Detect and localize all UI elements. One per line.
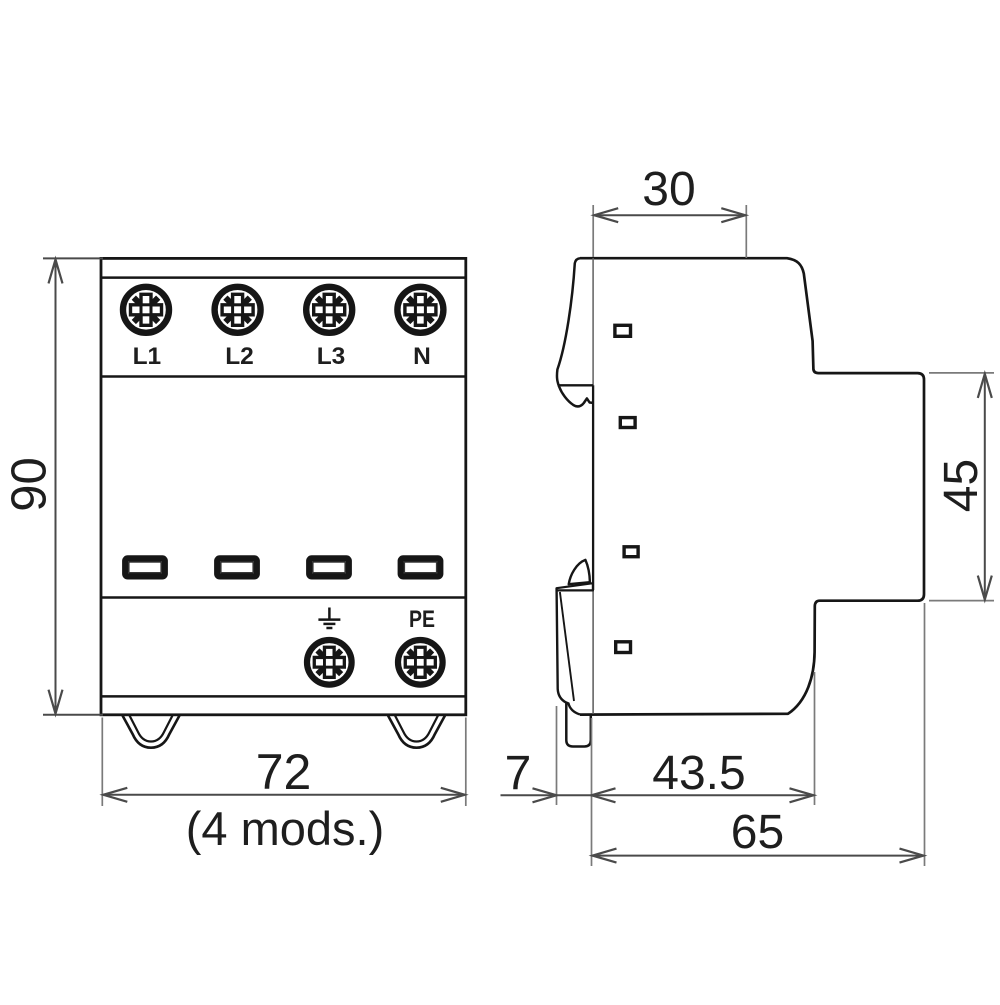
- dim 72 right extension: [465, 718, 467, 807]
- dim 72 left extension: [101, 718, 103, 807]
- module window 4: [616, 642, 631, 653]
- dim 30 arrow left: [594, 208, 618, 222]
- upper DIN claw: [557, 258, 593, 406]
- bottom foot: [566, 703, 591, 747]
- lower clip outer edge: [557, 590, 570, 703]
- svg-text:43.5: 43.5: [652, 747, 745, 800]
- dim 43.5 arrow left: [592, 788, 616, 802]
- lower clip release tab: [569, 560, 590, 584]
- dim 90 arrow up: [49, 259, 63, 283]
- dim 65 arrow left: [593, 849, 617, 863]
- module window 1: [615, 325, 631, 336]
- left mounting clip: [123, 716, 180, 748]
- divider line under slots: [101, 596, 466, 599]
- upper claw interior line: [558, 384, 594, 386]
- earth ground symbol: [318, 608, 340, 629]
- screw terminal L1: [123, 287, 169, 333]
- svg-text:72: 72: [256, 744, 312, 800]
- vent slot 2: [217, 558, 257, 576]
- dim 90 arrow down: [49, 690, 63, 714]
- svg-text:L2: L2: [225, 343, 254, 370]
- bottom edge left curve: [568, 703, 580, 715]
- svg-text:L3: L3: [317, 343, 346, 370]
- svg-text:7: 7: [505, 747, 532, 800]
- dim 90 bottom tick: [43, 714, 103, 716]
- side view left body edge upper thin part: [592, 258, 594, 385]
- side view left body edge: [592, 385, 594, 590]
- bottom band line: [101, 695, 466, 698]
- dim 7 line with outside arrow: [501, 794, 592, 796]
- dim 7-43.5 shared extension: [591, 718, 593, 866]
- dim 30 right extension: [745, 205, 747, 258]
- module window 3: [624, 547, 638, 557]
- svg-text:N: N: [413, 343, 431, 370]
- svg-text:L1: L1: [133, 343, 162, 370]
- dim 43.5 arrow right: [790, 788, 814, 802]
- dim 72 arrow left: [103, 788, 127, 802]
- vent slot 4: [401, 558, 441, 576]
- lower clip inner spring edge: [560, 592, 574, 701]
- dim 90 line: [55, 259, 57, 713]
- right mounting clip: [388, 716, 445, 748]
- dim 65 arrow right: [900, 849, 924, 863]
- svg-text:45: 45: [935, 459, 988, 512]
- dim 7 arrow: [533, 788, 557, 802]
- dim 43.5 right extension: [814, 672, 816, 805]
- dim 30 line: [594, 214, 745, 216]
- dim 72 line: [103, 794, 465, 796]
- top band line: [101, 276, 466, 279]
- dim 45 bottom extension: [929, 600, 994, 602]
- screw terminal PE: [398, 640, 443, 685]
- svg-text:65: 65: [731, 806, 784, 859]
- dim 45 arrow down: [978, 576, 992, 600]
- front view device body outline: [101, 258, 466, 714]
- screw terminal L3: [306, 287, 352, 333]
- dim 7 left extension: [556, 706, 558, 805]
- svg-text:PE: PE: [409, 606, 435, 633]
- vent slot 1: [125, 558, 165, 576]
- screw terminal N: [397, 287, 443, 333]
- dim 30 left extension: [592, 205, 594, 257]
- dim 72 arrow right: [441, 788, 465, 802]
- dim 65 right extension: [924, 603, 926, 866]
- dim 30 arrow right: [721, 208, 745, 222]
- svg-text:90: 90: [3, 457, 57, 512]
- svg-text:(4 mods.): (4 mods.): [186, 802, 385, 855]
- module window 2: [620, 418, 635, 428]
- lower clip band: [557, 583, 593, 590]
- screw terminal L2: [215, 287, 261, 333]
- dim 45 line: [984, 374, 986, 600]
- dim 90 top tick: [43, 257, 103, 259]
- side view main body outline: [580, 258, 924, 714]
- vent slot 3: [309, 558, 349, 576]
- divider line under labels: [101, 375, 466, 378]
- side view left body edge hidden part: [592, 590, 594, 714]
- dim 45 arrow up: [978, 374, 992, 398]
- svg-text:30: 30: [642, 163, 695, 216]
- screw terminal ground: [307, 640, 352, 685]
- dim 65 line: [593, 855, 924, 857]
- dim 43.5 line: [592, 794, 814, 796]
- dim 45 top extension: [929, 372, 994, 374]
